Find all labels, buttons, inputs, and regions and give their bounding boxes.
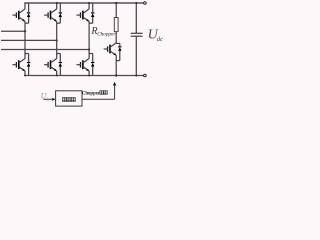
svg-text:Chopper: Chopper [82,91,101,96]
svg-text:dc: dc [46,96,50,101]
svg-text:Chopper: Chopper [97,32,116,38]
svg-text:dc: dc [157,36,163,43]
